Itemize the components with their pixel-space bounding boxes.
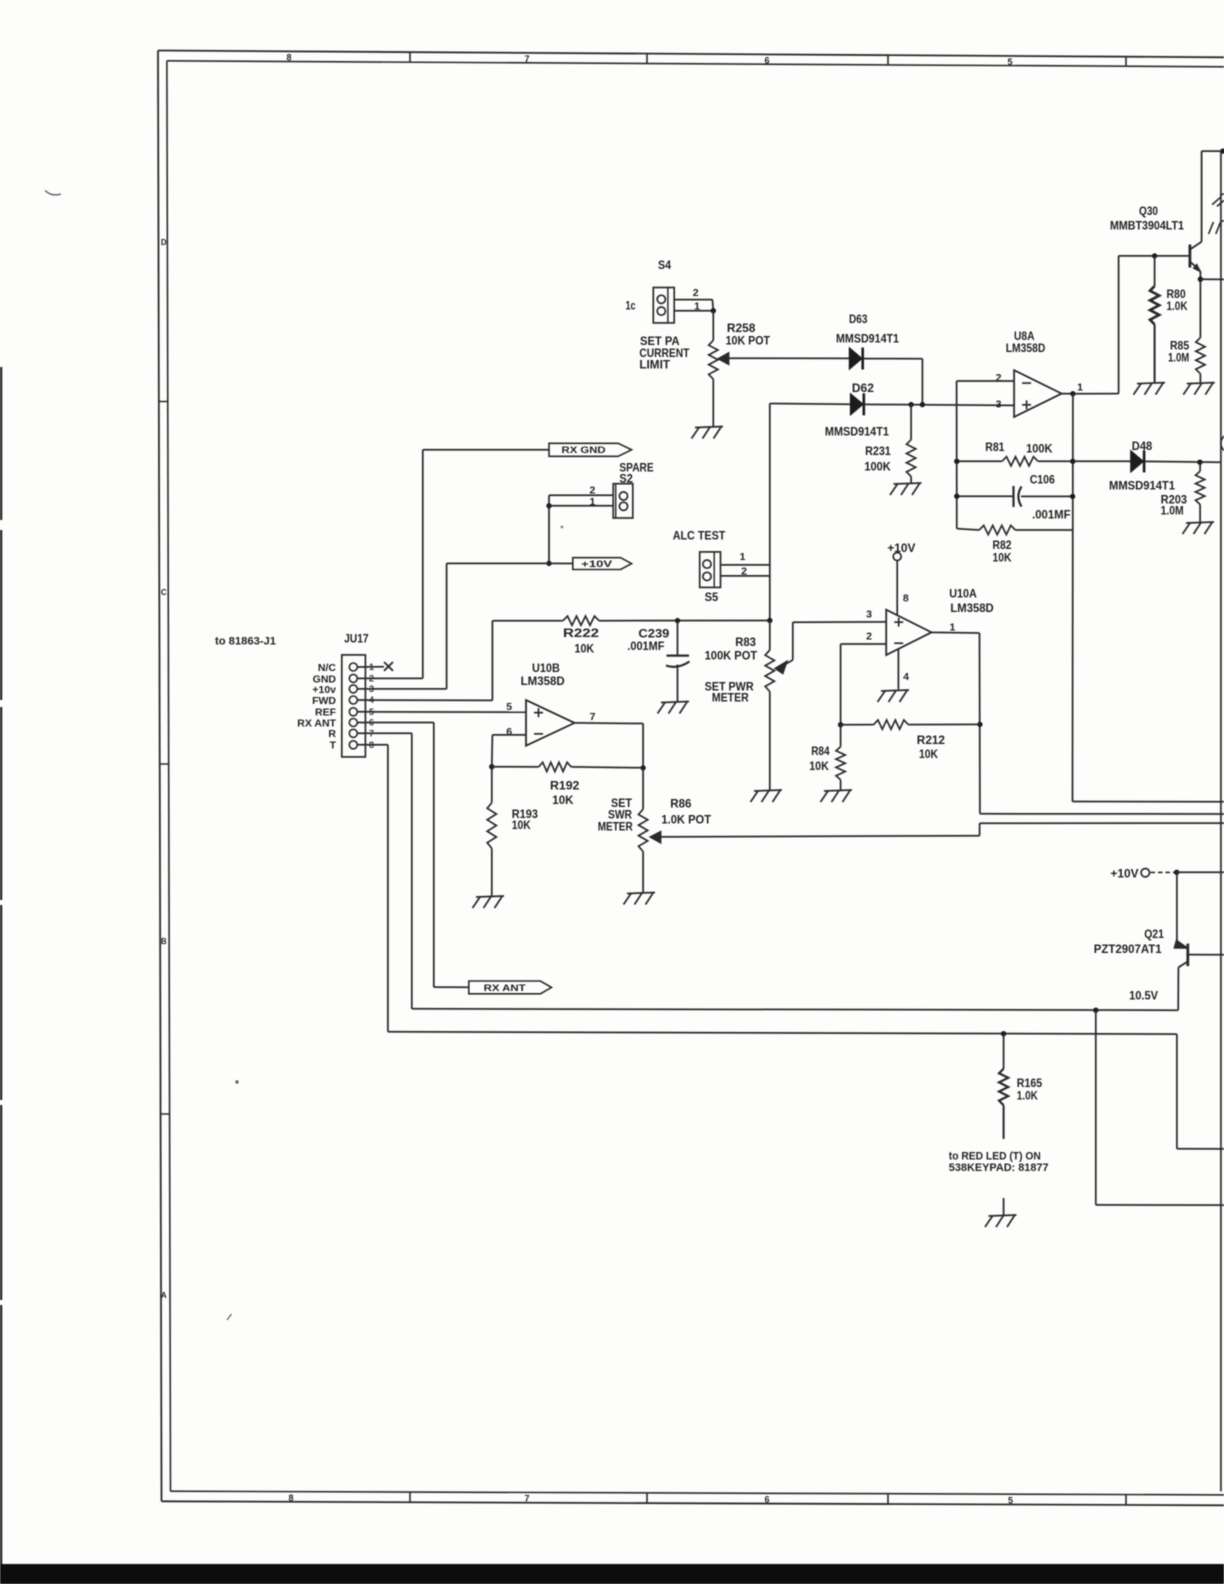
- svg-text:LM358D: LM358D: [521, 676, 565, 688]
- svg-text:SET PA: SET PA: [640, 336, 680, 348]
- svg-text:U10B: U10B: [532, 663, 560, 675]
- svg-text:538KEYPAD: 81877: 538KEYPAD: 81877: [949, 1162, 1049, 1174]
- svg-text:6: 6: [764, 55, 769, 65]
- svg-text:MMBT3904LT1: MMBT3904LT1: [1110, 221, 1185, 233]
- svg-text:R165: R165: [1017, 1078, 1043, 1090]
- svg-text:8: 8: [903, 593, 909, 605]
- svg-text:10K: 10K: [919, 749, 939, 761]
- svg-text:METER: METER: [598, 821, 634, 833]
- svg-text:S5: S5: [705, 592, 719, 604]
- svg-text:1: 1: [740, 551, 746, 563]
- svg-text:D63: D63: [849, 314, 868, 326]
- svg-text:R85: R85: [1170, 341, 1190, 353]
- svg-text:+10V: +10V: [887, 543, 915, 555]
- svg-text:3: 3: [996, 399, 1002, 411]
- svg-text:MMSD914T1: MMSD914T1: [825, 427, 890, 439]
- svg-text:LM358D: LM358D: [950, 603, 993, 615]
- svg-text:R222: R222: [563, 628, 599, 640]
- svg-text:R82: R82: [993, 540, 1012, 552]
- svg-text:R81: R81: [985, 442, 1005, 454]
- svg-text:7: 7: [524, 54, 529, 64]
- svg-text:R258: R258: [727, 323, 756, 335]
- svg-text:RX ANT: RX ANT: [484, 983, 526, 994]
- svg-text:U10A: U10A: [949, 589, 977, 601]
- svg-text:10.5V: 10.5V: [1129, 990, 1158, 1002]
- svg-text:B: B: [161, 937, 167, 946]
- svg-text:D: D: [161, 238, 167, 247]
- svg-text:R192: R192: [550, 781, 579, 793]
- svg-text:6: 6: [506, 726, 512, 738]
- svg-text:MMSD914T1: MMSD914T1: [836, 334, 900, 346]
- svg-text:1.0M: 1.0M: [1161, 505, 1184, 517]
- svg-text:10K: 10K: [552, 795, 574, 807]
- svg-text:CURRENT: CURRENT: [639, 348, 689, 360]
- svg-text:10K: 10K: [809, 761, 829, 773]
- svg-text:3: 3: [866, 609, 872, 621]
- svg-text:R80: R80: [1167, 289, 1186, 301]
- svg-text:1.0K POT: 1.0K POT: [661, 815, 711, 827]
- svg-text:LM358D: LM358D: [1006, 343, 1046, 355]
- svg-text:1c: 1c: [626, 301, 636, 313]
- svg-text:LIMIT: LIMIT: [639, 360, 670, 372]
- svg-text:D62: D62: [852, 383, 874, 395]
- svg-text:+10V: +10V: [1111, 869, 1139, 881]
- svg-text:METER: METER: [712, 692, 749, 704]
- svg-text:7: 7: [590, 711, 596, 723]
- svg-text:10K: 10K: [512, 820, 532, 832]
- svg-text:to RED LED (T) ON: to RED LED (T) ON: [949, 1151, 1041, 1163]
- svg-text:5: 5: [1007, 57, 1012, 67]
- svg-text:10K: 10K: [993, 553, 1013, 565]
- svg-text:R86: R86: [670, 798, 691, 810]
- svg-text:8: 8: [286, 53, 291, 63]
- svg-text:MMSD914T1: MMSD914T1: [1109, 481, 1176, 493]
- svg-text:T: T: [330, 740, 337, 752]
- svg-text:1.0M: 1.0M: [1168, 353, 1189, 365]
- svg-text:2: 2: [996, 372, 1002, 384]
- svg-text:.001MF: .001MF: [1032, 510, 1070, 522]
- svg-text:D48: D48: [1132, 441, 1153, 453]
- svg-text:Q21: Q21: [1144, 929, 1164, 941]
- svg-text:R84: R84: [811, 746, 830, 758]
- svg-text:8: 8: [288, 1493, 293, 1503]
- svg-text:C239: C239: [638, 629, 669, 641]
- svg-text:4: 4: [903, 671, 909, 683]
- svg-text:FWD: FWD: [312, 695, 336, 707]
- svg-text:SET: SET: [611, 798, 632, 810]
- svg-text:100K: 100K: [864, 461, 891, 473]
- svg-text:Q30: Q30: [1139, 206, 1158, 218]
- svg-text:to 81863-J1: to 81863-J1: [215, 636, 276, 648]
- svg-text:SWR: SWR: [608, 810, 633, 822]
- svg-text:2: 2: [866, 631, 872, 643]
- svg-text:7: 7: [524, 1494, 529, 1504]
- svg-text:1: 1: [1077, 382, 1083, 394]
- svg-text:1: 1: [949, 622, 955, 634]
- svg-text:C: C: [161, 588, 167, 597]
- svg-text:R: R: [328, 728, 336, 740]
- svg-text:JU17: JU17: [344, 634, 369, 646]
- svg-text:1.0K: 1.0K: [1017, 1091, 1039, 1103]
- svg-text:10K POT: 10K POT: [726, 335, 770, 347]
- svg-text:U8A: U8A: [1014, 331, 1035, 343]
- svg-text:5: 5: [506, 701, 512, 713]
- svg-text:PZT2907AT1: PZT2907AT1: [1094, 944, 1162, 956]
- svg-text:100K: 100K: [1026, 443, 1053, 455]
- svg-text:100K POT: 100K POT: [705, 651, 758, 663]
- svg-text:R83: R83: [735, 637, 756, 649]
- svg-text:2: 2: [693, 287, 699, 299]
- svg-text:C106: C106: [1030, 475, 1055, 487]
- svg-text:A: A: [161, 1291, 167, 1300]
- svg-text:5: 5: [1008, 1495, 1013, 1505]
- svg-text:R212: R212: [917, 735, 945, 747]
- svg-text:+10V: +10V: [581, 559, 613, 570]
- svg-text:.001MF: .001MF: [627, 641, 664, 653]
- svg-text:ALC TEST: ALC TEST: [673, 531, 726, 543]
- svg-text:1.0K: 1.0K: [1167, 301, 1189, 313]
- svg-text:RX GND: RX GND: [562, 445, 606, 456]
- svg-text:R231: R231: [865, 446, 891, 458]
- svg-text:S4: S4: [658, 260, 672, 272]
- svg-text:N/C: N/C: [318, 662, 337, 674]
- svg-text:10K: 10K: [575, 643, 595, 655]
- svg-text:6: 6: [764, 1495, 769, 1505]
